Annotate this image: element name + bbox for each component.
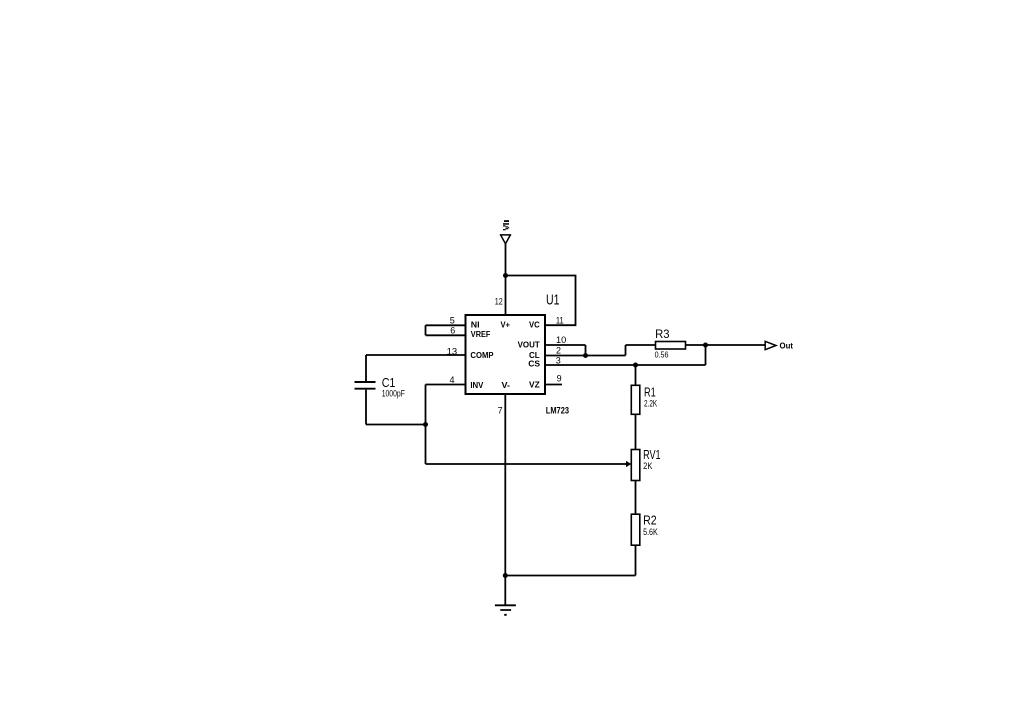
svg-text:R2: R2 <box>643 513 657 528</box>
svg-text:5: 5 <box>450 316 455 326</box>
svg-text:9: 9 <box>557 374 562 384</box>
svg-text:CL: CL <box>529 351 540 360</box>
svg-text:11: 11 <box>556 315 564 325</box>
svg-text:LM723: LM723 <box>546 406 569 416</box>
svg-text:U1: U1 <box>546 292 560 309</box>
svg-text:VZ: VZ <box>529 380 540 389</box>
svg-text:3: 3 <box>556 355 561 365</box>
svg-text:VC: VC <box>529 321 540 330</box>
svg-text:VOUT: VOUT <box>518 341 540 350</box>
svg-text:6: 6 <box>450 326 455 336</box>
svg-text:4: 4 <box>450 375 455 385</box>
svg-text:R1: R1 <box>644 385 656 400</box>
svg-text:10: 10 <box>556 335 566 345</box>
svg-text:Out: Out <box>780 341 794 350</box>
svg-text:NI: NI <box>471 321 480 330</box>
svg-text:COMP: COMP <box>470 351 494 360</box>
svg-text:V+: V+ <box>501 321 511 330</box>
svg-text:7: 7 <box>498 405 503 415</box>
svg-text:5.6K: 5.6K <box>643 527 658 537</box>
svg-text:VREF: VREF <box>471 330 491 339</box>
svg-text:R3: R3 <box>655 327 670 341</box>
svg-text:0.56: 0.56 <box>655 351 669 360</box>
svg-text:2: 2 <box>556 346 561 356</box>
svg-text:INV: INV <box>470 381 484 390</box>
svg-text:CS: CS <box>528 360 540 369</box>
svg-text:1000pF: 1000pF <box>382 388 406 398</box>
svg-text:2.2K: 2.2K <box>644 398 657 408</box>
svg-text:13: 13 <box>447 346 458 356</box>
svg-text:RV1: RV1 <box>643 447 661 462</box>
svg-text:12: 12 <box>495 297 503 307</box>
svg-text:V-: V- <box>502 381 511 390</box>
svg-text:2K: 2K <box>643 461 652 471</box>
